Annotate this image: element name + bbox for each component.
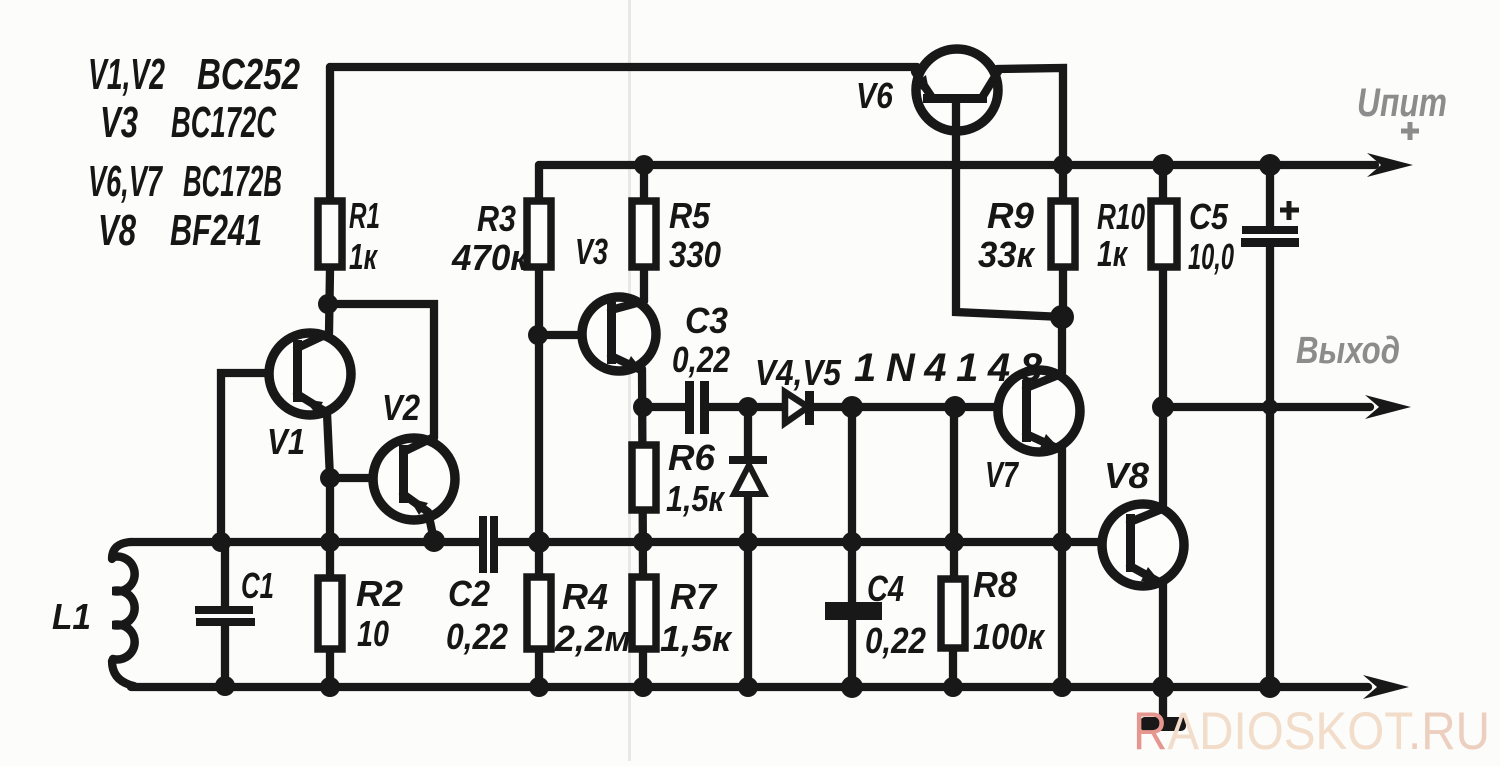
svg-text:10,0: 10,0 [1188, 236, 1234, 277]
svg-text:V1: V1 [267, 421, 305, 462]
svg-text:BC172C: BC172C [171, 98, 277, 147]
svg-text:R9: R9 [987, 195, 1034, 236]
svg-text:V8: V8 [98, 206, 136, 255]
svg-text:BC172B: BC172B [183, 157, 282, 206]
svg-text:L1: L1 [52, 596, 91, 637]
svg-text:V2: V2 [382, 387, 420, 428]
svg-text:1к: 1к [349, 236, 378, 277]
svg-text:V6: V6 [856, 75, 894, 116]
svg-text:BC252: BC252 [197, 50, 300, 99]
svg-text:330: 330 [669, 234, 721, 275]
svg-text:C4: C4 [867, 568, 904, 609]
svg-text:V3: V3 [575, 231, 608, 272]
svg-text:V4,V5: V4,V5 [755, 352, 842, 393]
svg-text:C2: C2 [448, 573, 490, 614]
svg-text:V1,V2: V1,V2 [88, 50, 165, 99]
svg-text:2,2м: 2,2м [554, 618, 631, 659]
svg-text:V6,V7: V6,V7 [88, 157, 164, 206]
svg-text:C5: C5 [1189, 196, 1229, 237]
svg-text:C3: C3 [685, 300, 728, 341]
svg-text:R1: R1 [349, 195, 380, 236]
svg-text:Выход: Выход [1296, 330, 1400, 372]
svg-text:V3: V3 [100, 98, 138, 147]
svg-text:33к: 33к [978, 234, 1036, 275]
svg-text:1,5к: 1,5к [666, 478, 725, 519]
svg-text:1,5к: 1,5к [660, 618, 733, 659]
svg-text:BF241: BF241 [170, 206, 262, 255]
svg-text:C1: C1 [241, 565, 274, 606]
svg-text:R10: R10 [1097, 196, 1145, 237]
svg-text:100к: 100к [973, 616, 1046, 657]
svg-text:10: 10 [357, 613, 389, 654]
svg-text:R6: R6 [668, 437, 716, 478]
svg-text:R2: R2 [356, 573, 403, 614]
svg-text:0,22: 0,22 [446, 616, 508, 657]
svg-text:RADIOSKOT.RU: RADIOSKOT.RU [1133, 702, 1490, 761]
svg-text:Uпит: Uпит [1357, 81, 1447, 125]
svg-text:470к: 470к [451, 237, 530, 278]
svg-text:R3: R3 [477, 198, 516, 239]
svg-text:R5: R5 [669, 195, 711, 236]
svg-text:R8: R8 [973, 564, 1017, 605]
svg-text:V7: V7 [985, 454, 1019, 495]
svg-text:R4: R4 [562, 576, 608, 617]
svg-text:R7: R7 [670, 576, 718, 617]
svg-text:1к: 1к [1097, 233, 1128, 274]
svg-text:0,22: 0,22 [865, 620, 926, 661]
svg-text:V8: V8 [1104, 455, 1149, 496]
svg-text:0,22: 0,22 [672, 339, 730, 380]
